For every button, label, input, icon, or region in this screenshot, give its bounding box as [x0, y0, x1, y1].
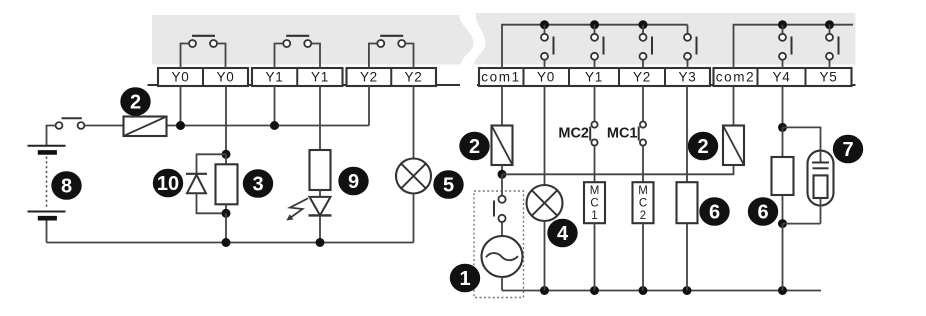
svg-text:Y4: Y4	[773, 70, 791, 85]
svg-text:10: 10	[157, 173, 179, 195]
svg-text:Y1: Y1	[585, 70, 603, 85]
LED D2 (9)	[309, 190, 332, 243]
transistor output contact Y5	[826, 25, 839, 68]
relay contact above Y0 pair	[181, 36, 226, 68]
fuse F3 (com2)	[723, 126, 744, 166]
wire com2 riser and top bus	[734, 25, 854, 68]
wire Y4 down	[782, 86, 784, 127]
fuse F2 (com1)	[492, 126, 513, 175]
svg-text:8: 8	[61, 176, 72, 198]
wire Y3r down	[686, 86, 688, 182]
wire Y2r down	[642, 86, 644, 121]
contactor coil MC2	[633, 182, 654, 290]
switch S1	[47, 118, 124, 145]
wire Y2a terminal down	[368, 86, 370, 126]
lamp LP2 (4)	[527, 185, 563, 291]
wire Y1a terminal down	[274, 86, 276, 126]
svg-text:M: M	[638, 185, 648, 197]
wire com1 riser and top bus	[502, 25, 688, 68]
svg-text:MC1: MC1	[607, 126, 638, 142]
node bus Y0r	[540, 20, 549, 29]
terminal block com2 Y4 Y5	[714, 68, 852, 86]
PLC module gray panel (left, torn right edge)	[152, 15, 474, 65]
transistor output contact Y4	[779, 25, 792, 68]
node bus Y2r bottom	[639, 286, 648, 295]
svg-text:2: 2	[640, 210, 646, 222]
terminal block pair Y1 Y1	[252, 68, 343, 86]
label 10	[153, 169, 183, 198]
node Y4 lamp branch top	[778, 123, 787, 132]
node bus Y5	[825, 20, 834, 29]
label 9	[338, 167, 368, 196]
svg-text:3: 3	[252, 174, 263, 196]
label 6 (Y3 load)	[699, 197, 729, 226]
node bus Y4	[778, 20, 787, 29]
label 4	[547, 219, 577, 248]
dashed enclosure (AC supply)	[474, 191, 524, 298]
svg-text:6: 6	[709, 202, 720, 224]
node diode bottom junction	[222, 209, 231, 218]
wire Y1r down	[594, 86, 596, 121]
wire com2 down	[733, 86, 735, 126]
battery B1	[28, 146, 66, 243]
svg-text:Y2: Y2	[360, 70, 378, 85]
wire bottom bus (right circuit)	[502, 290, 821, 292]
lamp LP1 (5)	[396, 159, 431, 243]
node bus Y4 bottom	[778, 286, 787, 295]
svg-text:com2: com2	[716, 70, 755, 85]
wire Y4 to bus	[782, 224, 784, 291]
node bus Y1b	[316, 238, 325, 247]
svg-text:7: 7	[842, 139, 853, 161]
right module bottom edge line	[477, 84, 856, 86]
svg-text:2: 2	[469, 136, 480, 158]
contact MC2 (interlock)	[558, 122, 597, 183]
left module bottom edge line	[148, 84, 461, 86]
load box (6) under Y3	[677, 182, 698, 290]
label 2 (com2 fuse)	[688, 132, 718, 161]
discharge lamp (7)	[783, 151, 834, 224]
label 2 (com1 fuse)	[459, 132, 489, 161]
label 1	[450, 264, 480, 293]
transistor output contact Y0r	[541, 25, 554, 68]
node diode top junction	[222, 150, 231, 159]
node bus Y1r bottom	[590, 286, 599, 295]
svg-text:Y2: Y2	[633, 70, 651, 85]
svg-text:C: C	[590, 198, 598, 210]
svg-text:MC2: MC2	[558, 126, 589, 142]
resistor R2 (9)	[310, 150, 331, 190]
contactor coil MC1	[584, 182, 605, 290]
svg-text:Y3: Y3	[679, 70, 697, 85]
svg-text:com1: com1	[481, 70, 520, 85]
wire Y0r down	[544, 86, 546, 185]
node bus Y2r	[639, 20, 648, 29]
label 6 (Y4 load)	[748, 197, 778, 226]
wire Y2b branch upper	[413, 86, 415, 159]
switch S2 in enclosure	[494, 174, 506, 236]
AC source G1	[482, 236, 523, 291]
label 8	[51, 171, 81, 200]
wire fuse to Y2a common run	[167, 125, 370, 127]
diode D1 (10)	[186, 154, 226, 213]
transistor output contact Y2r	[640, 25, 653, 68]
wire com1 down	[501, 86, 503, 126]
svg-text:Y0: Y0	[537, 70, 555, 85]
node Y4 lamp branch bottom	[778, 219, 787, 228]
resistor load L1 (3)	[216, 154, 238, 213]
svg-text:9: 9	[348, 171, 359, 193]
contact MC1 (interlock)	[607, 122, 646, 183]
relay contact above Y2 pair	[369, 36, 414, 68]
node bus Y3r bottom	[683, 286, 692, 295]
node bus Y1r	[590, 20, 599, 29]
terminal block com1 Y0 Y1 Y2 Y3	[479, 68, 710, 86]
wire lamp7 branch	[783, 127, 821, 150]
node junction Y1a	[270, 121, 279, 130]
svg-text:Y2: Y2	[405, 70, 423, 85]
relay contact above Y1 pair	[275, 36, 321, 68]
terminal block pair Y0 Y0	[158, 68, 248, 86]
fuse F1	[124, 117, 167, 137]
node bus Y0r bottom	[540, 286, 549, 295]
svg-text:4: 4	[557, 223, 569, 245]
wire cross run to com2 fuse	[502, 165, 734, 174]
terminal block pair Y2 Y2	[347, 68, 437, 86]
wire Y1b branch upper	[319, 86, 321, 150]
svg-text:C: C	[639, 198, 647, 210]
svg-text:2: 2	[697, 136, 708, 158]
wire Y0b to bus	[225, 213, 227, 242]
label 5	[433, 170, 463, 199]
PLC module gray panel (right, torn left edge)	[474, 13, 856, 65]
wire bottom bus (left circuit)	[47, 242, 414, 244]
svg-text:1: 1	[459, 268, 470, 290]
svg-text:2: 2	[130, 92, 141, 114]
svg-text:Y0: Y0	[172, 70, 190, 85]
label 2 (left fuse)	[120, 87, 150, 116]
svg-text:5: 5	[443, 175, 454, 197]
svg-text:1: 1	[591, 210, 597, 222]
transistor output contact Y1r	[591, 25, 604, 68]
svg-text:M: M	[590, 185, 600, 197]
svg-text:6: 6	[757, 202, 768, 224]
transistor output contact Y3r	[684, 25, 697, 68]
svg-text:Y0: Y0	[217, 70, 235, 85]
label 3	[243, 169, 273, 198]
svg-text:Y5: Y5	[820, 70, 838, 85]
wire Y0b branch upper	[225, 86, 227, 154]
label 7	[833, 135, 863, 164]
svg-text:Y1: Y1	[266, 70, 284, 85]
wire Y0a terminal down	[180, 86, 182, 126]
node bus Y0b	[222, 238, 231, 247]
node fuse bottom junction	[498, 170, 507, 179]
load box (6) under Y4	[772, 127, 794, 223]
svg-text:Y1: Y1	[311, 70, 329, 85]
LED emission arrows	[286, 198, 308, 220]
node junction Y0a	[176, 121, 185, 130]
